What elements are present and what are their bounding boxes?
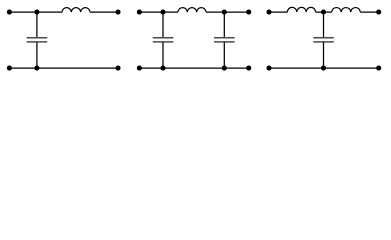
inductor L3 xyxy=(287,7,315,12)
inductor L2 xyxy=(178,8,206,12)
node: circuit 3 output terminal (bottom) xyxy=(376,66,381,71)
capacitor C3 xyxy=(214,38,235,42)
wire: capacitor C3 bottom lead xyxy=(223,42,225,68)
node: circuit 3 output terminal (top) xyxy=(376,10,381,15)
wire: capacitor C1 top lead xyxy=(36,12,38,37)
node: circuit 2 output terminal (bottom) xyxy=(246,66,251,71)
inductor L1 xyxy=(62,8,90,12)
node: circuit 3 input terminal (top) xyxy=(266,10,271,15)
junction: C1 / bottom rail xyxy=(34,66,39,71)
wire: capacitor C2 top lead xyxy=(162,12,164,37)
wire: circuit 2 top rail, input to inductor xyxy=(139,11,178,13)
capacitor C1 xyxy=(27,38,48,42)
wire: circuit 2 top rail, inductor to output xyxy=(206,11,249,13)
node: circuit 2 output terminal (top) xyxy=(246,10,251,15)
wire: circuit 3 bottom rail xyxy=(269,67,379,69)
wire: circuit 1 top rail, input to inductor xyxy=(9,11,62,13)
junction: C1 / top rail xyxy=(34,10,39,15)
node: circuit 1 output terminal (top) xyxy=(115,10,120,15)
capacitor C2 xyxy=(153,38,174,42)
wire: circuit 1 bottom rail xyxy=(9,67,118,69)
node: circuit 2 input terminal (bottom) xyxy=(137,66,142,71)
wire: circuit 2 bottom rail xyxy=(139,67,248,69)
node: circuit 1 input terminal (bottom) xyxy=(7,66,12,71)
junction: C3 / bottom rail xyxy=(222,66,227,71)
junction: C4 / top rail xyxy=(321,10,326,15)
junction: C2 / top rail xyxy=(160,10,165,15)
wire: circuit 1 top rail, inductor to output xyxy=(90,11,118,13)
inductor L4 xyxy=(332,8,361,13)
node: circuit 2 input terminal (top) xyxy=(137,10,142,15)
wire: capacitor C4 top lead xyxy=(323,12,325,37)
wire: capacitor C2 bottom lead xyxy=(162,42,164,68)
junction: C4 / bottom rail xyxy=(321,66,326,71)
wire: capacitor C4 bottom lead xyxy=(323,42,325,68)
junction: C2 / bottom rail xyxy=(160,66,165,71)
wire: capacitor C1 bottom lead xyxy=(36,42,38,68)
wire: circuit 3 top rail, between inductors xyxy=(316,11,332,13)
wire: circuit 3 top rail, input to first inductor xyxy=(269,11,287,13)
node: circuit 1 output terminal (bottom) xyxy=(115,66,120,71)
node: circuit 1 input terminal (top) xyxy=(7,10,12,15)
wire: circuit 3 top rail, second inductor to output xyxy=(360,11,378,13)
wire: capacitor C3 top lead xyxy=(223,12,225,37)
capacitor C4 xyxy=(313,38,334,42)
node: circuit 3 input terminal (bottom) xyxy=(266,66,271,71)
junction: C3 / top rail xyxy=(222,10,227,15)
